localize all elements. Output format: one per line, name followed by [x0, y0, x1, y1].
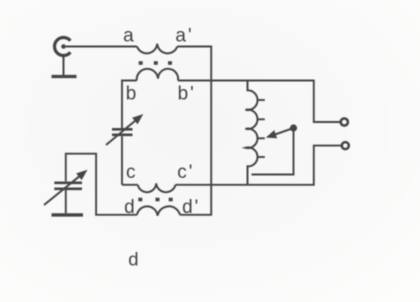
- wire a' to corner: [177, 46, 212, 48]
- svg-text:d': d': [182, 197, 200, 218]
- terminal lower: [342, 142, 349, 149]
- ground (under source): [52, 56, 77, 77]
- inductor c-c': [138, 183, 176, 192]
- source connector (C with dot): [55, 38, 71, 56]
- svg-text:b: b: [126, 83, 137, 104]
- right vertical lower + stub: [314, 146, 342, 186]
- svg-text:c': c': [177, 162, 194, 183]
- tap dot: [290, 124, 297, 131]
- variable capacitor C1 plates: [112, 129, 133, 135]
- wire C2 to ground: [65, 190, 67, 213]
- wire c' to right block bottom: [176, 184, 314, 186]
- wire d' to vertical: [180, 214, 212, 216]
- tap wire down and left: [252, 130, 294, 175]
- svg-text:d: d: [124, 197, 135, 218]
- tap ticks: [258, 100, 265, 157]
- core dots top: [139, 61, 172, 65]
- inductor a-a': [137, 44, 177, 54]
- svg-text:a': a': [175, 26, 193, 47]
- tapped inductor (right block): [246, 80, 258, 186]
- variable capacitor C2 plates: [54, 183, 82, 189]
- core dots bottom: [138, 198, 172, 202]
- variable capacitor C1 arrow: [106, 114, 143, 145]
- wire source to coil a: [66, 46, 137, 48]
- wire C1 to c: [121, 136, 123, 185]
- terminal upper: [341, 118, 348, 125]
- tap wiper arrow: [266, 128, 294, 138]
- svg-text:b': b': [178, 84, 196, 105]
- wire a' vertical down to d': [210, 46, 212, 215]
- wire b' to right block top: [178, 80, 314, 82]
- inductor b-b': [137, 69, 178, 81]
- wire c left corner: [122, 184, 138, 186]
- inductor d-d': [137, 206, 180, 215]
- ground (under C2): [52, 213, 84, 216]
- svg-text:c: c: [126, 162, 136, 183]
- svg-text:a: a: [123, 26, 134, 47]
- variable capacitor C2 arrow: [44, 170, 88, 205]
- wire d left route to C2: [66, 154, 137, 215]
- right vertical upper + stub: [314, 80, 340, 122]
- svg-text:d: d: [128, 248, 138, 269]
- wire b left corner: [122, 81, 137, 129]
